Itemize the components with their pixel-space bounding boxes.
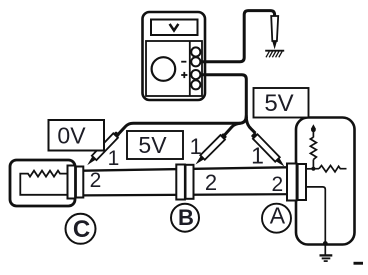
probe (at connector C pin 1)	[85, 131, 120, 168]
svg-text:2: 2	[205, 170, 217, 195]
svg-text:B: B	[178, 205, 194, 230]
node (ground junction dot)	[323, 241, 328, 246]
connector A	[286, 163, 307, 202]
resistor R3 (sensor element loop)	[20, 171, 67, 195]
wire (branch to probe B)	[223, 123, 240, 136]
svg-text:2: 2	[90, 169, 102, 192]
probe (at connector A pin 1)	[250, 132, 286, 169]
wire (positive lead down from meter)	[200, 75, 247, 118]
node (junction dot)	[311, 167, 315, 171]
resistor R1 (pull-up, vertical)	[310, 137, 316, 159]
dial	[152, 57, 176, 81]
jack 4	[191, 80, 200, 89]
V mark on display	[170, 24, 179, 31]
wire (branch to probe A)	[246, 117, 255, 133]
connector B	[176, 165, 193, 200]
node A (circle label)	[262, 204, 291, 233]
svg-text:C: C	[73, 216, 90, 243]
panel divider	[189, 41, 191, 96]
node C (circle label)	[66, 214, 96, 244]
minus label	[181, 61, 186, 63]
sensor (resistive sender)	[10, 160, 75, 206]
wire (harness bottom line C-A)	[83, 194, 287, 195]
jack 3 (+)	[191, 70, 200, 79]
svg-text:1: 1	[190, 134, 202, 159]
multimeter panel	[146, 41, 202, 96]
ground	[320, 244, 333, 262]
svg-text:1: 1	[251, 143, 264, 169]
ECU box U1	[296, 118, 355, 245]
plus label	[181, 72, 187, 78]
jack 1	[191, 47, 200, 56]
svg-text:5V: 5V	[264, 90, 293, 117]
connector C	[68, 166, 84, 199]
wire (junction run to probe C)	[116, 116, 246, 137]
jack 2 (COM)	[191, 57, 200, 66]
supply arrow node inside ECU	[311, 124, 316, 132]
svg-text:A: A	[270, 203, 286, 229]
node B (circle label)	[171, 204, 199, 232]
wire (harness top line C-A)	[83, 167, 287, 170]
wire (connector A pin1 to node)	[305, 168, 320, 170]
multimeter display	[151, 20, 198, 36]
label box 5V (right)	[254, 88, 309, 118]
label box 5V (middle)	[127, 131, 183, 159]
resistor R2 (horizontal)	[319, 166, 347, 172]
svg-text:1: 1	[108, 147, 120, 170]
label box 0V	[49, 120, 105, 151]
multimeter U2	[143, 12, 206, 100]
wire (supply to resistor)	[312, 130, 314, 138]
svg-text:2: 2	[271, 173, 283, 196]
svg-text:0V: 0V	[57, 123, 86, 149]
svg-text:5V: 5V	[138, 132, 167, 158]
wire (connector A pin2 to ground)	[305, 187, 325, 243]
wire (resistor to node)	[312, 160, 314, 169]
negative terminal dash (bottom right)	[354, 262, 364, 265]
wire (negative lead to top probe)	[200, 11, 275, 62]
probe (at connector B pin 1)	[193, 133, 227, 167]
ground (probe contact, hatched)	[265, 51, 284, 58]
probe (negative, at ground)	[271, 16, 278, 49]
